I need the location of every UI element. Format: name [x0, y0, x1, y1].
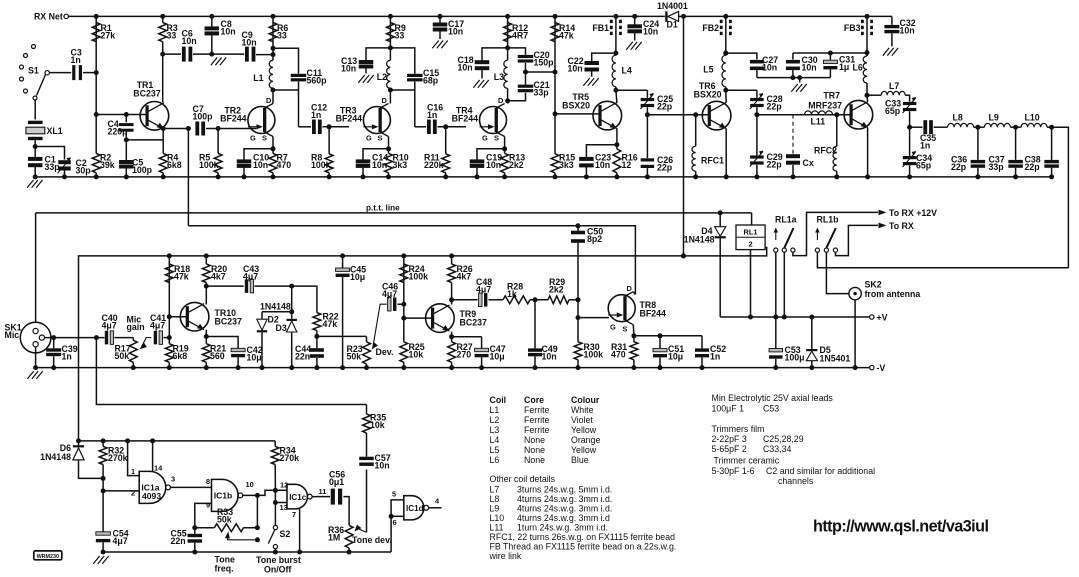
svg-text:22p: 22p — [951, 162, 967, 172]
svg-text:L10: L10 — [1025, 113, 1040, 123]
svg-text:10n: 10n — [242, 38, 257, 48]
capacitor C36 22p — [977, 127, 979, 160]
svg-text:S: S — [623, 325, 628, 334]
ground at SK1 — [27, 371, 33, 379]
wire L2 bottom to TR3 drain — [389, 88, 391, 103]
resistor R28 1k — [503, 296, 530, 304]
svg-text:6: 6 — [393, 518, 397, 527]
inductor L4 — [612, 55, 616, 87]
wiper R17 to C41 — [141, 338, 151, 348]
wire TR7 emitter — [867, 128, 869, 177]
svg-text:FB1: FB1 — [592, 23, 609, 33]
svg-text:G: G — [482, 134, 488, 143]
svg-text:1N4148: 1N4148 — [684, 235, 715, 245]
capacitor C35 1n — [910, 126, 923, 128]
svg-text:RL1b: RL1b — [817, 215, 840, 225]
ground at C1 — [27, 180, 33, 188]
wire L3 column — [507, 16, 509, 60]
svg-text:None: None — [524, 445, 545, 455]
transistor TR6 BSX20 — [702, 101, 731, 130]
svg-text:4μ7: 4μ7 — [150, 321, 165, 331]
ground at C13 — [358, 75, 364, 83]
wire R22 node to R23 — [317, 335, 367, 337]
capacitor C56 0u1 — [331, 489, 335, 505]
ground at C24 — [626, 42, 632, 50]
diode D6 1N4148 — [78, 441, 80, 446]
wire TR6 collector node — [725, 87, 727, 90]
node +V terminal — [870, 315, 874, 319]
diode D2 1N4148 — [262, 311, 292, 313]
svg-text:Dev.: Dev. — [376, 347, 394, 357]
wire TR5 collector node — [615, 87, 617, 90]
ground at C54 — [93, 556, 99, 564]
svg-text:WRM230: WRM230 — [37, 554, 59, 560]
wire TR5 base — [555, 113, 599, 115]
capacitor C20 150p — [508, 48, 526, 55]
resistor R13 2k2 — [501, 153, 509, 172]
svg-text:270: 270 — [457, 350, 472, 360]
svg-text:3: 3 — [171, 475, 175, 484]
wire tone supply line — [79, 440, 276, 442]
resistor R7 470 — [269, 153, 277, 172]
svg-text:BC237: BC237 — [460, 318, 487, 328]
svg-text:L3: L3 — [494, 72, 504, 82]
svg-text:100k: 100k — [584, 350, 604, 360]
wire SK1 ground pin — [35, 347, 37, 368]
inductor L11 — [805, 111, 833, 115]
svg-text:BSX20: BSX20 — [562, 101, 590, 111]
wire C27/C30/C31 ground bus — [757, 77, 831, 79]
svg-text:27k: 27k — [101, 31, 116, 41]
inductor L6 — [866, 53, 868, 56]
svg-text:10μ: 10μ — [247, 353, 262, 363]
svg-text:68p: 68p — [423, 76, 439, 86]
svg-text:3turns 24s.w.g. 5mm i.d.: 3turns 24s.w.g. 5mm i.d. — [517, 485, 612, 495]
svg-text:White: White — [571, 405, 594, 415]
inductor L2 — [387, 60, 391, 88]
wire TR10 emitter node — [205, 330, 207, 337]
wire TR1 collector — [162, 42, 164, 103]
svg-text:10n: 10n — [595, 160, 610, 170]
wire RL1b left contact antenna line — [817, 252, 1068, 268]
gate IC1c — [280, 481, 327, 520]
wire R14 column — [554, 16, 556, 153]
wire S1 to XL1 — [34, 100, 36, 120]
svg-text:1n: 1n — [427, 110, 437, 120]
wire IC1c pin13 — [275, 502, 287, 504]
svg-text:Yellow: Yellow — [571, 425, 597, 435]
wire IC1a pin14 — [152, 441, 154, 472]
svg-text:TR7: TR7 — [823, 91, 840, 101]
wiper R36 — [355, 525, 362, 532]
svg-text:65p: 65p — [885, 106, 901, 116]
svg-text:Min Electrolytic 25V axial lea: Min Electrolytic 25V axial leads — [712, 393, 834, 403]
svg-text:22p: 22p — [657, 102, 673, 112]
wire TR10 base column — [168, 256, 170, 344]
wire TX switch line — [683, 16, 685, 256]
svg-text:10n: 10n — [762, 63, 777, 73]
svg-text:D3: D3 — [276, 323, 287, 333]
svg-text:D1: D1 — [667, 20, 678, 30]
svg-text:RFC2: RFC2 — [814, 146, 837, 156]
svg-text:1n: 1n — [71, 55, 81, 65]
wire +V line — [720, 316, 870, 318]
svg-text:4093: 4093 — [142, 491, 161, 501]
svg-text:L9: L9 — [989, 113, 999, 123]
svg-text:RL1a: RL1a — [775, 215, 797, 225]
svg-text:0μ1: 0μ1 — [329, 477, 344, 487]
svg-text:10n: 10n — [341, 64, 356, 74]
capacitor C47 10u — [452, 336, 482, 338]
ferrite bead FB1 — [613, 14, 618, 19]
svg-text:1N4001: 1N4001 — [657, 1, 688, 11]
svg-text:4k7: 4k7 — [211, 272, 226, 282]
svg-text:To RX +12V: To RX +12V — [889, 208, 937, 218]
svg-text:Tone dev.: Tone dev. — [352, 535, 392, 545]
gate IC1a 4093 — [131, 464, 175, 504]
svg-text:Violet: Violet — [571, 415, 593, 425]
wire R1 column — [95, 16, 97, 153]
wire R34 column — [274, 441, 276, 447]
svg-text:Colour: Colour — [571, 395, 600, 405]
capacitor C23 10n — [579, 157, 594, 161]
svg-text:Orange: Orange — [571, 435, 600, 445]
ground at C18 — [473, 80, 479, 88]
svg-text:100k: 100k — [199, 160, 219, 170]
capacitor C52 1n — [701, 336, 703, 349]
resistor R14 47k — [551, 23, 559, 42]
svg-text:C25,28,29: C25,28,29 — [763, 434, 804, 444]
svg-text:RX Net: RX Net — [34, 12, 63, 22]
node -V terminal — [870, 365, 874, 369]
transistor TR1 BC237 — [140, 102, 169, 131]
wire IC1b out to IC1c — [243, 490, 287, 495]
wire TR8 gate — [578, 317, 609, 319]
svg-text:10n: 10n — [182, 36, 197, 46]
svg-text:1n: 1n — [710, 352, 720, 362]
svg-text:RL1: RL1 — [744, 227, 758, 236]
resistor R34 270k — [271, 446, 279, 464]
svg-text:S2: S2 — [280, 529, 291, 539]
capacitor C37 33p — [1015, 127, 1017, 160]
svg-text:L1: L1 — [490, 405, 500, 415]
svg-text:2k2: 2k2 — [509, 160, 524, 170]
wire RL1b middle contact to SK2 — [826, 252, 849, 293]
svg-text:IC1c: IC1c — [289, 493, 307, 502]
svg-text:270k: 270k — [280, 453, 300, 463]
wire IC1a out to IC1b — [171, 486, 212, 488]
diode D4 1N4148 — [719, 213, 721, 227]
svg-text:None: None — [524, 435, 545, 445]
svg-text:50k: 50k — [217, 515, 232, 525]
wiper R23 from C46 — [373, 304, 387, 347]
ground at C32 — [883, 48, 889, 56]
capacitor C41 4u7 — [154, 331, 157, 345]
svg-text:1k: 1k — [507, 289, 517, 299]
inductor L10 — [1021, 123, 1047, 127]
wire bottom ground rail — [35, 176, 1051, 178]
wire TR1 base — [96, 114, 146, 116]
wire tone inject drop — [96, 338, 366, 405]
svg-text:47k: 47k — [174, 272, 189, 282]
svg-text:L7: L7 — [490, 485, 500, 495]
svg-text:L4: L4 — [622, 66, 632, 76]
svg-text:1: 1 — [131, 467, 135, 476]
svg-text:-V: -V — [877, 363, 886, 373]
svg-text:1n: 1n — [311, 110, 321, 120]
svg-text:freq.: freq. — [215, 564, 234, 574]
svg-text:C2 and similar for additional: C2 and similar for additional — [766, 466, 875, 476]
wire RL1 bottom to +V — [750, 250, 752, 317]
svg-text:L9: L9 — [490, 504, 500, 514]
capacitor C1 33p — [28, 157, 43, 161]
wire oscillator output drop — [187, 129, 189, 226]
svg-text:470: 470 — [277, 160, 292, 170]
capacitor C31 1u — [829, 53, 831, 60]
resistor R26 4k7 — [451, 256, 453, 264]
wire mic signal line — [45, 337, 105, 339]
ferrite bead FB3 — [865, 14, 870, 19]
potentiometer R23 50k Dev — [366, 337, 368, 342]
svg-text:100p: 100p — [132, 165, 153, 175]
svg-text:L3: L3 — [490, 425, 500, 435]
node L8/L9 junction — [974, 126, 985, 128]
svg-text:FB3: FB3 — [844, 23, 861, 33]
gate IC1d — [392, 490, 440, 528]
capacitor C7 100p — [195, 122, 199, 136]
wire TR7 collector node — [866, 83, 868, 95]
resistor R35 10k — [366, 405, 368, 415]
wire supply distribution y53 — [865, 50, 870, 55]
svg-text:4μ7: 4μ7 — [102, 321, 117, 331]
svg-text:channels: channels — [778, 476, 814, 486]
svg-text:11: 11 — [319, 487, 327, 496]
svg-text:33: 33 — [167, 31, 177, 41]
svg-text:D: D — [627, 284, 633, 293]
svg-text:S1: S1 — [28, 66, 39, 76]
svg-text:L11: L11 — [811, 117, 826, 127]
resistor R15 3k3 — [551, 154, 559, 173]
wire mic supply rail — [79, 248, 767, 441]
svg-text:10n: 10n — [802, 63, 817, 73]
svg-text:4μ7: 4μ7 — [113, 536, 128, 546]
wire XL1 to C1/C2 — [34, 140, 36, 157]
wire TR5 emitter node — [616, 128, 618, 144]
wire top supply rail — [68, 15, 665, 17]
svg-text:BC237: BC237 — [133, 89, 160, 99]
svg-text:D: D — [266, 96, 272, 105]
wire R32 column — [102, 465, 104, 532]
wire R24/R25 column — [403, 256, 405, 342]
svg-text:10n: 10n — [458, 63, 473, 73]
svg-text:1n: 1n — [920, 141, 930, 151]
svg-text:C33,34: C33,34 — [763, 444, 791, 454]
svg-text:MRF237: MRF237 — [808, 100, 842, 110]
wire SK1 to ptt — [35, 213, 37, 322]
svg-text:14: 14 — [154, 464, 163, 473]
svg-text:Mic: Mic — [5, 330, 20, 340]
wire R34 to pin13 and S2 — [274, 490, 276, 525]
gate IC1b — [206, 477, 254, 511]
inductor RFC2 — [836, 115, 838, 147]
resistor R32 270k — [102, 441, 104, 447]
resistor R18 47k — [165, 264, 173, 283]
svg-text:RFC1, 22 turns 26s.w.g. on FX1: RFC1, 22 turns 26s.w.g. on FX1115 ferrit… — [490, 532, 676, 542]
capacitor C57 10n — [359, 457, 374, 460]
resistor R31 470 — [633, 336, 635, 342]
svg-text:2k2: 2k2 — [549, 285, 564, 295]
svg-text:220p: 220p — [108, 127, 129, 137]
transistor TR4 BF244 — [480, 107, 507, 134]
svg-text:9: 9 — [206, 501, 210, 510]
wire TR3 source node — [388, 137, 390, 154]
svg-text:BF244: BF244 — [336, 114, 363, 124]
svg-text:2-22pF 3: 2-22pF 3 — [712, 434, 747, 444]
capacitor C53 100u — [775, 317, 777, 349]
capacitor C8 10n — [209, 14, 214, 19]
wire C4/C5 node to emitter — [126, 139, 163, 141]
svg-text:22p: 22p — [767, 160, 783, 170]
capacitor C12 1n — [299, 126, 312, 128]
transistor TR10 BC237 — [180, 302, 209, 331]
svg-text:33p: 33p — [989, 162, 1005, 172]
svg-text:L6: L6 — [853, 63, 863, 73]
svg-text:5-65pF 2: 5-65pF 2 — [712, 444, 747, 454]
capacitor C27 10n — [723, 51, 728, 56]
ground at C17 — [432, 41, 438, 49]
svg-text:10μ: 10μ — [350, 272, 365, 282]
svg-text:Coil: Coil — [490, 395, 507, 405]
svg-text:22n: 22n — [295, 352, 310, 362]
switch S2 — [273, 526, 277, 530]
svg-text:L5: L5 — [490, 445, 500, 455]
ground at C30/C31 — [791, 84, 797, 92]
inductor L8 — [948, 123, 974, 127]
capacitor C11 560p — [273, 48, 299, 73]
svg-text:39k: 39k — [100, 160, 115, 170]
svg-text:C53: C53 — [763, 404, 779, 414]
wire emitter to C42 — [206, 337, 238, 349]
transistor TR5 BSX20 — [593, 101, 622, 130]
svg-text:1n: 1n — [62, 352, 72, 362]
svg-text:50k: 50k — [347, 352, 362, 362]
capacitor C45 10u — [340, 253, 345, 258]
svg-text:100μ: 100μ — [785, 353, 805, 363]
transistor TR7 MRF237 — [844, 100, 873, 129]
svg-text:1M: 1M — [328, 533, 340, 543]
svg-text:10μ: 10μ — [668, 352, 683, 362]
capacitor C43 4u7 — [206, 285, 243, 287]
wire rail to C32 corner — [891, 16, 893, 24]
svg-text:10n: 10n — [900, 26, 915, 36]
svg-text:BSX20: BSX20 — [694, 90, 722, 100]
svg-text:33: 33 — [277, 31, 287, 41]
potentiometer R36 1M — [345, 525, 353, 548]
wire L1 bottom to TR2 drain — [272, 88, 274, 103]
capacitor C25 22p trimmer — [646, 90, 648, 98]
capacitor C4 220p — [125, 115, 127, 123]
svg-text:L8: L8 — [490, 494, 500, 504]
svg-text:10n: 10n — [221, 27, 236, 37]
capacitor C21 33p — [518, 85, 534, 88]
svg-text:L6: L6 — [490, 455, 500, 465]
wire TR8 drain — [633, 292, 635, 295]
wire L1 column — [272, 16, 274, 60]
inductor L1 — [269, 60, 273, 88]
wire IC1a pin2 — [103, 490, 139, 492]
svg-text:BF244: BF244 — [220, 114, 247, 124]
svg-text:2: 2 — [131, 489, 135, 498]
capacitor C39 1n — [53, 338, 55, 349]
resistor R6 33 — [269, 23, 277, 42]
node RX Net terminal — [64, 14, 68, 18]
wire TR9 emitter node — [451, 332, 453, 337]
wire RL1a left contact to +V — [775, 252, 777, 317]
svg-text:4k7: 4k7 — [457, 272, 472, 282]
resistor R10 3k3 — [385, 153, 393, 172]
capacitor C29 22p trimmer — [750, 155, 764, 158]
svg-text:33: 33 — [395, 31, 405, 41]
wire IC1b pin9 column — [195, 503, 212, 527]
svg-text:2: 2 — [748, 240, 752, 249]
svg-text:470: 470 — [611, 350, 626, 360]
svg-text:D: D — [498, 96, 504, 105]
resistor R22 47k — [315, 286, 318, 313]
resistor R16 12 — [616, 145, 618, 149]
transistor TR8 BF244 — [608, 295, 635, 322]
potentiometer R17 50k Mic gain — [132, 338, 134, 341]
capacitor C55 22n — [188, 534, 203, 537]
svg-text:1N4148: 1N4148 — [260, 302, 291, 312]
capacitor C22 10n — [613, 51, 618, 56]
wire TR1 emitter node — [162, 128, 164, 129]
resistor R12 4R7 — [504, 23, 512, 42]
resistor R3 33 — [162, 16, 164, 22]
inductor L7 — [867, 94, 881, 96]
svg-text:Trimmers film: Trimmers film — [712, 424, 765, 434]
svg-text:3k3: 3k3 — [559, 160, 574, 170]
svg-text:L11: L11 — [490, 523, 504, 533]
capacitor C42 10u — [231, 348, 245, 351]
capacitor C16 1n — [415, 126, 426, 128]
wire TR9 base — [404, 317, 431, 319]
capacitor C18 10n — [482, 48, 508, 61]
capacitor C49 10n — [534, 300, 536, 349]
svg-text:33p: 33p — [534, 88, 550, 98]
wiper R33 — [225, 532, 230, 539]
svg-text:G: G — [610, 323, 616, 332]
resistor R30 100k — [577, 318, 579, 342]
capacitor C9 10n — [219, 53, 245, 55]
capacitor C10 10n — [237, 159, 252, 163]
ground at C6/C8 junction — [212, 53, 219, 55]
wire IC1c out to C56 — [312, 496, 330, 498]
capacitor C40 4u7 — [105, 331, 108, 345]
svg-text:10n: 10n — [375, 461, 390, 471]
resistor R5 100k — [217, 129, 219, 154]
svg-text:FB Thread an FX1115 ferrite be: FB Thread an FX1115 ferrite bead on a 22… — [490, 542, 677, 552]
svg-text:On/Off: On/Off — [264, 565, 291, 575]
svg-text:D: D — [382, 96, 388, 105]
svg-text:12: 12 — [622, 160, 632, 170]
capacitor C2 30p trimmer — [58, 160, 71, 164]
capacitor C54 4u7 — [96, 532, 111, 535]
svg-text:1N4148: 1N4148 — [40, 452, 71, 462]
svg-text:None: None — [524, 455, 545, 465]
svg-text:100μF 1: 100μF 1 — [712, 404, 745, 414]
wire TR2 source to R7/C10 — [272, 137, 274, 154]
wire R36 wiper up to C57 column — [366, 470, 368, 533]
